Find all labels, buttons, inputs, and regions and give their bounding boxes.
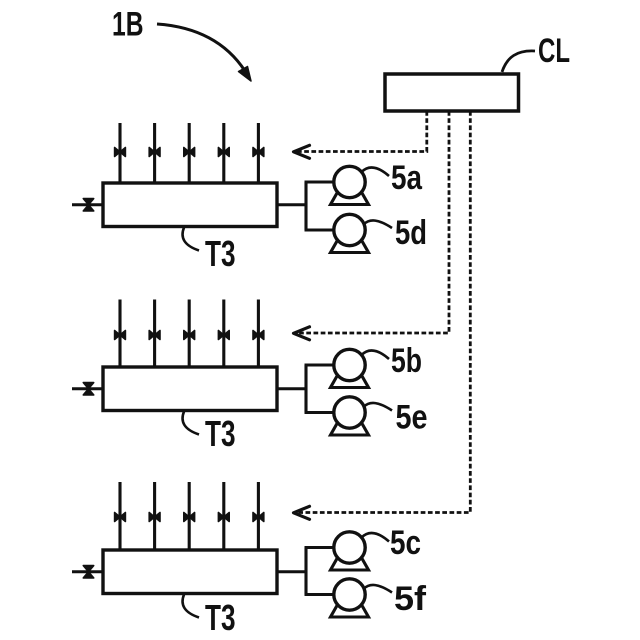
unit 3 drop pipe 2 [153,482,156,550]
unit 1 pump feed bottom [305,228,336,231]
unit 3 drop pipe 1 [118,482,121,550]
unit 1 branch pipe [304,182,307,230]
unit 2 valve 2 [149,331,160,340]
dashed control line to unit 1 [296,111,427,152]
unit 3 valve 3 [184,513,195,522]
unit 1 inlet pipe [72,203,103,206]
unit 1 valve 3 [184,148,195,157]
svg-text:1B: 1B [112,6,144,44]
arrowhead control line 1 [294,145,310,158]
unit 2 valve 1 [115,331,126,340]
unit 3 drop pipe 5 [257,482,260,550]
unit 1 drop pipe 5 [257,123,260,183]
svg-text:5c: 5c [390,524,421,562]
unit 3 inlet valve [83,566,93,578]
svg-text:T3: T3 [205,233,236,274]
label T3 unit 2 leader [183,412,199,435]
unit 3 drop pipe 4 [222,482,225,550]
unit 3 valve 1 [115,513,126,522]
unit 3 pump feed bottom [305,593,336,596]
svg-text:5e: 5e [396,399,428,437]
leader to label 5e [364,403,393,411]
svg-text:T3: T3 [205,413,236,454]
unit 2 drop pipe 5 [257,300,260,368]
unit 2 valve 3 [184,331,195,340]
unit 2 inlet pipe [72,387,103,390]
svg-text:T3: T3 [205,597,236,638]
pump 5d [331,234,369,253]
unit 1 drop pipe 3 [188,123,191,183]
unit 3 outlet pipe [277,570,306,573]
tank T3 unit 3 [103,550,277,594]
unit 2 drop pipe 2 [153,300,156,368]
unit 3 branch pipe [304,548,307,595]
unit 1 drop pipe 4 [222,123,225,183]
unit 1 valve 5 [253,148,264,157]
unit 1 valve 2 [149,148,160,157]
svg-text:5a: 5a [391,159,423,197]
label T3 unit 3 leader [183,595,199,618]
unit 1 pump feed top [305,180,336,183]
unit 2 valve 5 [253,331,264,340]
unit 3 pump feed top [305,546,336,549]
unit 2 inlet valve [83,383,93,395]
unit 3 drop pipe 3 [188,482,191,550]
svg-text:5b: 5b [391,342,422,380]
unit 1 valve 4 [218,148,229,157]
leader arrow from 1B [157,24,245,71]
tank T3 unit 1 [103,183,277,227]
unit 3 valve 2 [149,513,160,522]
pump 5a [331,186,369,205]
leader to label 5d [364,220,393,228]
unit 1 drop pipe 2 [153,123,156,183]
label T3 unit 1 leader [183,228,199,251]
unit 2 drop pipe 4 [222,300,225,368]
unit 1 valve 1 [115,148,126,157]
unit 2 drop pipe 1 [118,300,121,368]
unit 2 pump feed bottom [305,411,336,414]
unit 3 inlet pipe [72,570,103,573]
unit 1 drop pipe 1 [118,123,121,183]
tank T3 unit 2 [103,367,277,411]
arrowhead control line 2 [294,327,310,340]
dashed control line to unit 2 [296,111,449,333]
unit 1 outlet pipe [277,203,306,206]
unit 3 valve 5 [253,513,264,522]
unit 2 valve 4 [218,331,229,340]
pump 5e [331,417,369,436]
leader line to CL [502,51,535,72]
leader to label 5a [362,168,390,176]
leader to label 5f [364,585,393,593]
unit 2 pump feed top [305,363,336,366]
leader to label 5c [362,533,390,541]
unit 2 outlet pipe [277,387,306,390]
svg-text:5f: 5f [394,580,427,618]
unit 1 inlet valve [83,199,93,211]
unit 2 branch pipe [304,365,307,413]
pump 5c [331,552,369,571]
unit 3 valve 4 [218,513,229,522]
pump 5b [331,369,369,388]
leader to label 5b [362,351,390,359]
controller CL box [385,74,519,111]
unit 2 drop pipe 3 [188,300,191,368]
arrowhead control line 3 [294,506,310,519]
pump 5f [331,599,369,618]
svg-text:CL: CL [538,32,570,70]
dashed control line to unit 3 [296,111,470,513]
svg-text:5d: 5d [395,214,427,252]
